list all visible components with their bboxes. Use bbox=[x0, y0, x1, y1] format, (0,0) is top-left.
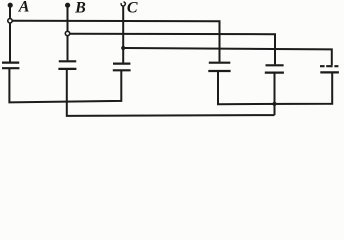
node B circle bbox=[65, 31, 69, 35]
wire line 3: node C to drop at C6 bbox=[123, 48, 332, 65]
wire bottom bus A: C1 to C3 bbox=[9, 68, 121, 102]
wire C5 lead to bus B bbox=[274, 73, 276, 116]
terminal C circle bbox=[121, 2, 125, 6]
junction dot node C on line 3 bbox=[121, 46, 125, 50]
terminal A dot bbox=[8, 3, 13, 8]
wire line 2: node B to drop at C5 bbox=[70, 34, 275, 65]
capacitor C5 bbox=[265, 65, 284, 72]
wire node B to capacitor C2 bbox=[67, 36, 69, 61]
svg-text:C: C bbox=[127, 0, 138, 17]
junction dot C5 lead on bus C bbox=[272, 102, 276, 106]
wire C terminal to capacitor C3 bbox=[122, 6, 124, 62]
capacitor C4 bbox=[208, 63, 230, 71]
wire bus B: C2 down and right to C5 lead bbox=[67, 69, 275, 116]
terminal B dot bbox=[65, 3, 70, 8]
wire line 1: node A to drop at C4 bbox=[12, 21, 219, 62]
capacitor C3 bbox=[113, 64, 131, 71]
wire A terminal to node A bbox=[9, 5, 11, 18]
capacitor C6 bbox=[320, 66, 339, 72]
node A circle bbox=[8, 19, 12, 23]
capacitor C1 bbox=[2, 63, 19, 69]
wire node A to capacitor C1 bbox=[9, 23, 11, 62]
svg-text:B: B bbox=[74, 0, 86, 17]
capacitor C2 bbox=[58, 61, 76, 69]
wire bus C: C4 down and right to C6 bbox=[218, 71, 332, 104]
paper background bbox=[0, 0, 344, 123]
svg-text:A: A bbox=[18, 0, 30, 16]
wire B terminal to node B bbox=[67, 5, 69, 31]
